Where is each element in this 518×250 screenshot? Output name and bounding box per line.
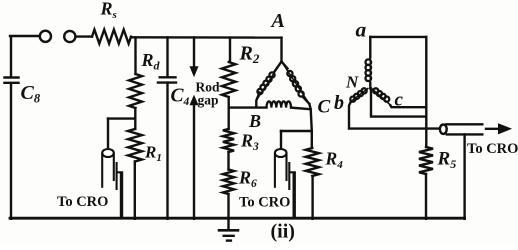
svg-text:a: a — [356, 18, 367, 42]
svg-text:To CRO: To CRO — [467, 141, 518, 157]
svg-text:To CRO: To CRO — [239, 195, 290, 211]
svg-text:b: b — [334, 92, 344, 114]
svg-text:B: B — [248, 111, 261, 131]
svg-text:gap: gap — [198, 93, 219, 108]
svg-text:A: A — [270, 10, 285, 32]
svg-text:N: N — [345, 73, 359, 92]
svg-text:c: c — [395, 89, 404, 110]
svg-text:(ii): (ii) — [271, 221, 295, 243]
svg-text:To CRO: To CRO — [57, 194, 108, 210]
svg-text:C: C — [318, 97, 331, 118]
